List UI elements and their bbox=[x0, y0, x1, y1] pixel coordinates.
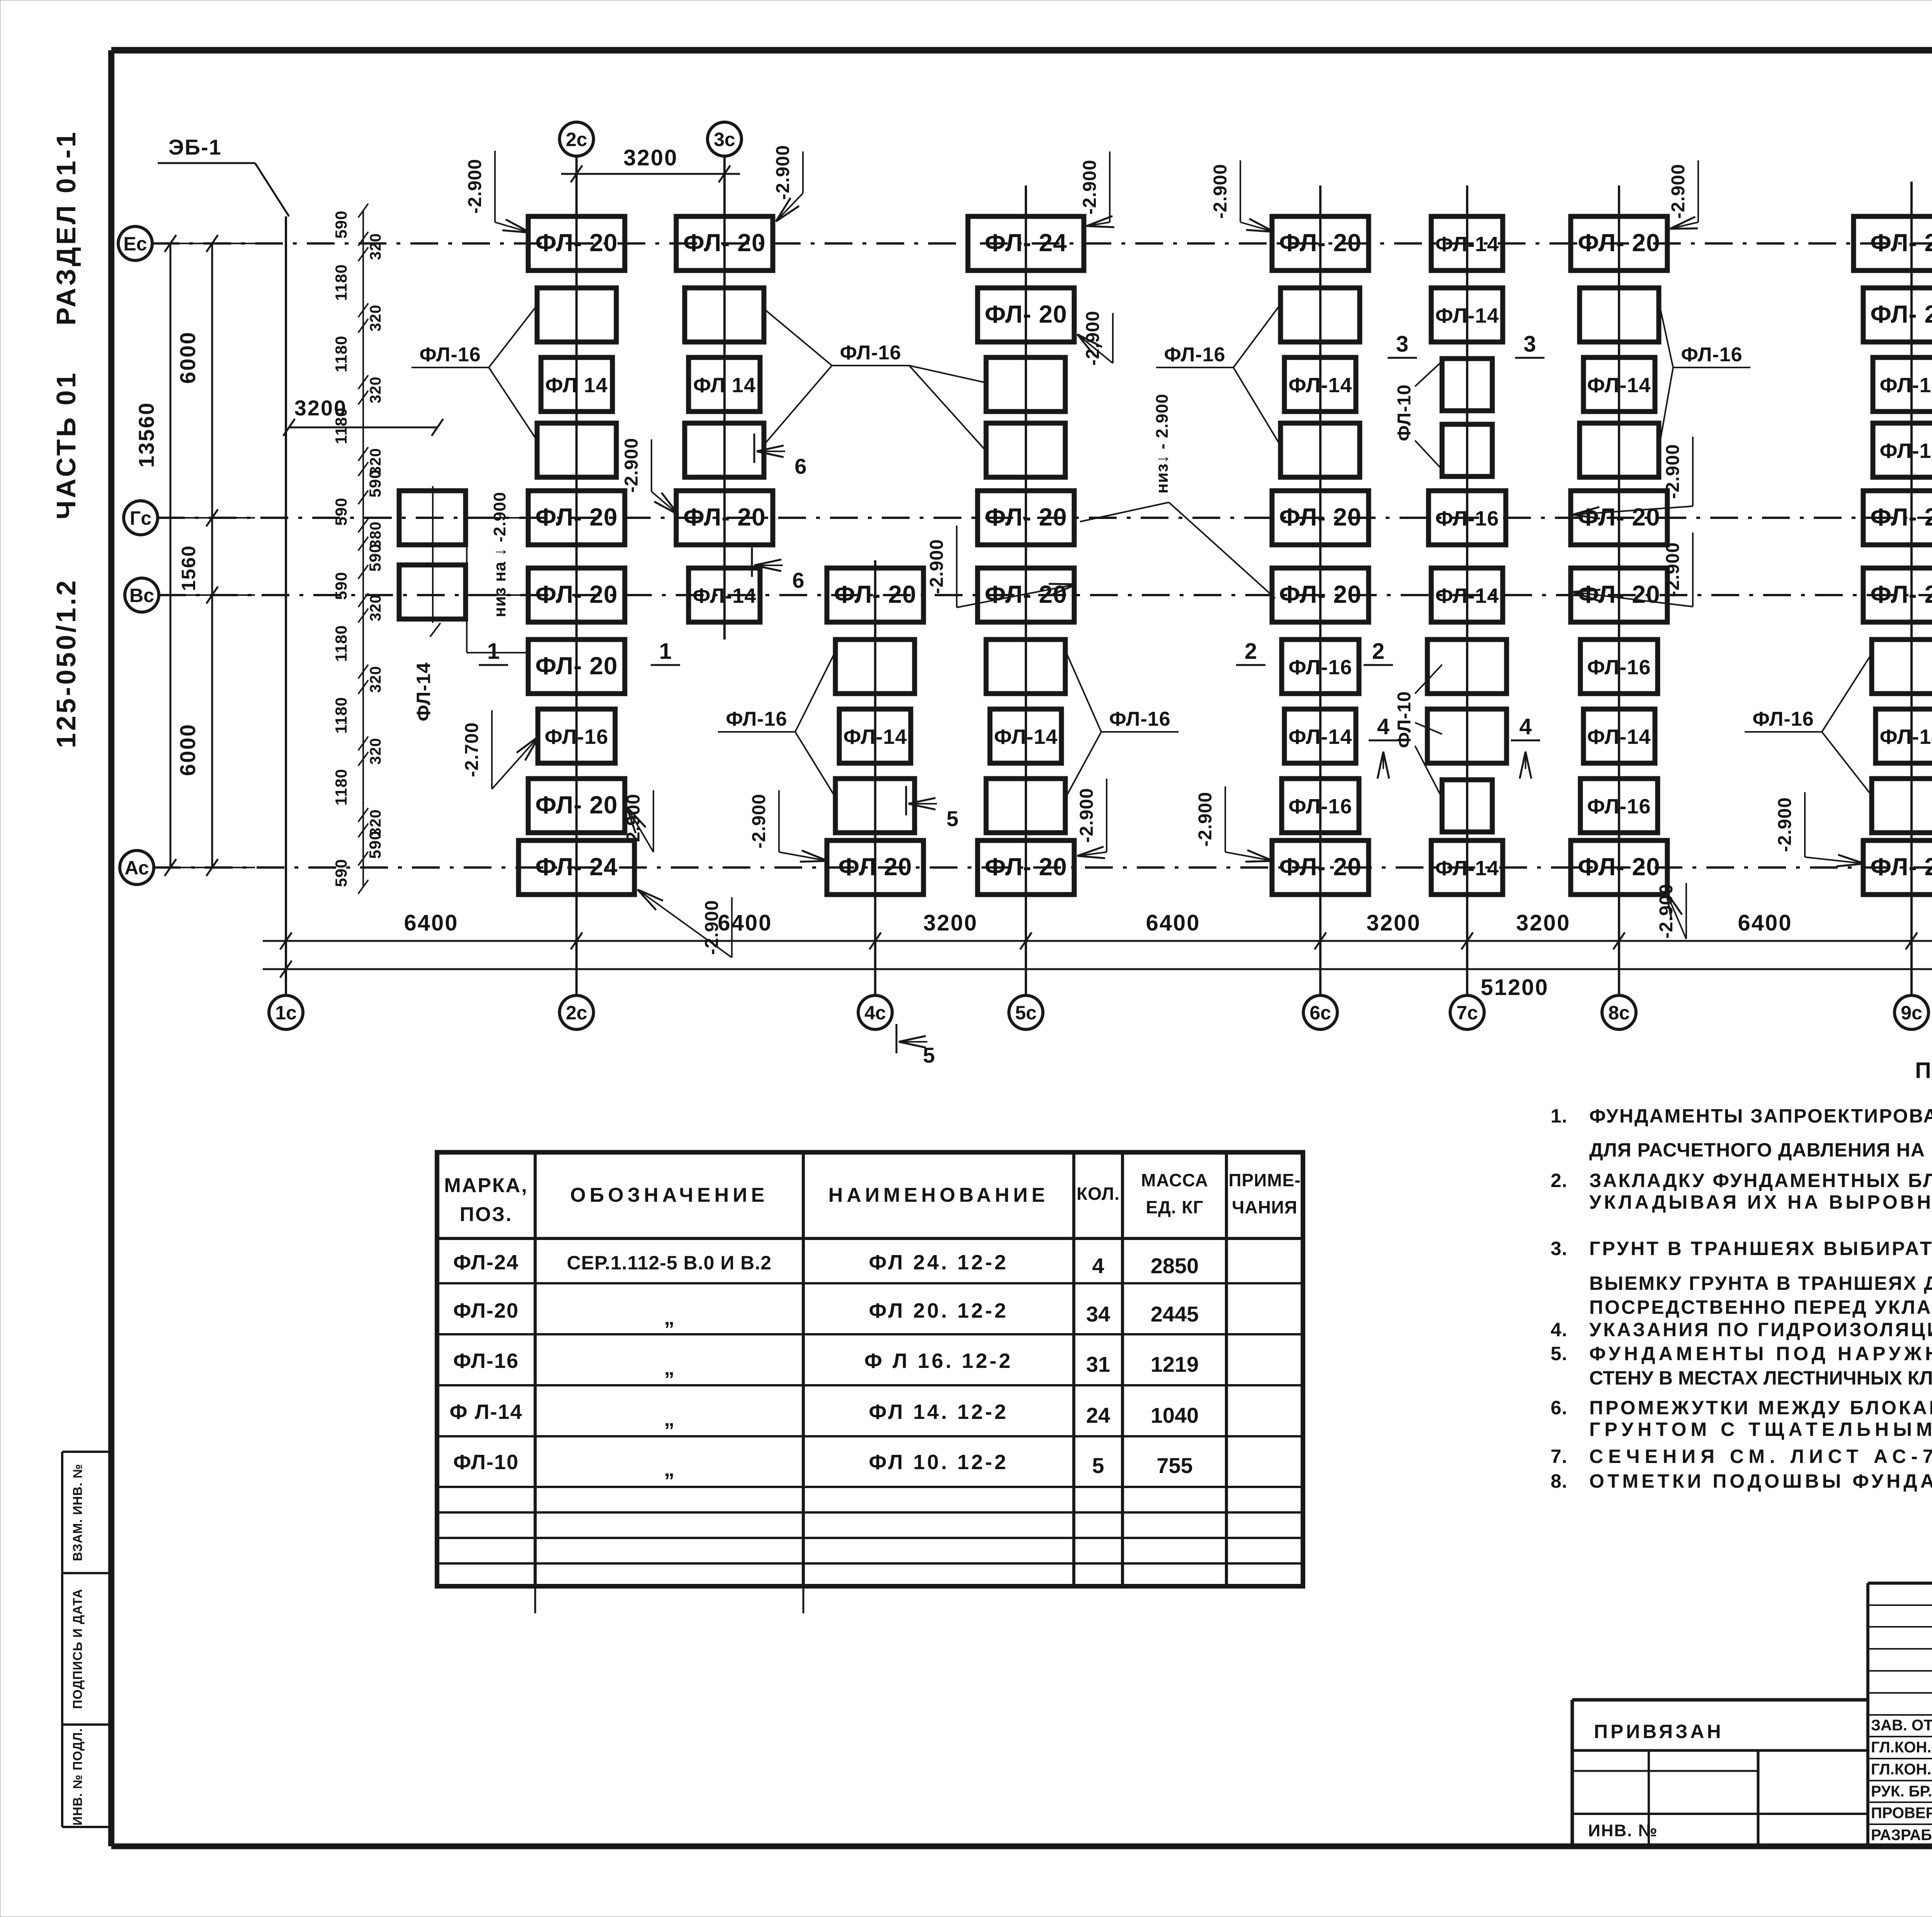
svg-text:4с: 4с bbox=[864, 1002, 886, 1024]
svg-text:ФЛ- 20: ФЛ- 20 bbox=[834, 580, 916, 608]
svg-text:2: 2 bbox=[1372, 639, 1384, 664]
svg-text:НАИМЕНОВАНИЕ: НАИМЕНОВАНИЕ bbox=[828, 1184, 1049, 1206]
svg-text:3200: 3200 bbox=[623, 145, 678, 170]
svg-text:Ас: Ас bbox=[124, 857, 149, 879]
svg-text:590: 590 bbox=[366, 830, 384, 859]
svg-text:3.: 3. bbox=[1551, 1238, 1568, 1259]
svg-text:„: „ bbox=[664, 1306, 675, 1329]
svg-text:3с: 3с bbox=[714, 129, 735, 150]
svg-text:6400: 6400 bbox=[404, 910, 458, 936]
svg-text:1180: 1180 bbox=[332, 407, 350, 444]
svg-text:2445: 2445 bbox=[1151, 1302, 1199, 1326]
svg-text:590: 590 bbox=[366, 469, 384, 497]
svg-text:„: „ bbox=[664, 1356, 675, 1379]
svg-text:-2.700: -2.700 bbox=[462, 722, 482, 777]
svg-text:24: 24 bbox=[1086, 1403, 1110, 1427]
svg-text:ДЛЯ РАСЧЕТНОГО ДАВЛЕНИЯ НА: ДЛЯ РАСЧЕТНОГО ДАВЛЕНИЯ НА ГРУНТ - 2,0 К… bbox=[1589, 1139, 1932, 1161]
svg-text:СЕЧЕНИЯ СМ. ЛИСТ АС-7: СЕЧЕНИЯ СМ. ЛИСТ АС-7 bbox=[1589, 1446, 1932, 1467]
svg-text:ФЛ-16: ФЛ-16 bbox=[726, 708, 787, 730]
svg-text:ФЛ-14: ФЛ-14 bbox=[1289, 725, 1352, 748]
svg-text:3: 3 bbox=[1524, 332, 1536, 357]
svg-text:5: 5 bbox=[1092, 1453, 1104, 1478]
svg-text:ОТМЕТКИ ПОДОШВЫ ФУНДАМЕНТОВ,: ОТМЕТКИ ПОДОШВЫ ФУНДАМЕНТОВ, НЕ ОГОВОРЕН… bbox=[1589, 1470, 1932, 1492]
svg-text:Гс: Гс bbox=[130, 507, 151, 529]
svg-text:УКАЗАНИЯ ПО ГИДРОИЗОЛЯЦИИ С: УКАЗАНИЯ ПО ГИДРОИЗОЛЯЦИИ СМ. ЛИСТ АС-2 … bbox=[1589, 1319, 1932, 1340]
svg-text:6000: 6000 bbox=[175, 331, 200, 384]
svg-text:ФЛ-16: ФЛ-16 bbox=[840, 342, 901, 364]
svg-text:320: 320 bbox=[367, 666, 384, 693]
svg-text:1: 1 bbox=[659, 639, 672, 664]
svg-text:ПОДПИСЬ И ДАТА: ПОДПИСЬ И ДАТА bbox=[70, 1589, 85, 1709]
svg-text:6с: 6с bbox=[1310, 1002, 1331, 1024]
svg-text:ФЛ-16: ФЛ-16 bbox=[419, 344, 481, 366]
svg-text:ЗАВ. ОТД.: ЗАВ. ОТД. bbox=[1871, 1717, 1932, 1734]
svg-text:ФЛ 14: ФЛ 14 bbox=[693, 374, 756, 397]
svg-text:ВЗАМ. ИНВ. №: ВЗАМ. ИНВ. № bbox=[70, 1464, 85, 1561]
svg-text:низ на ↓ -2.900: низ на ↓ -2.900 bbox=[490, 492, 509, 617]
svg-text:6.: 6. bbox=[1551, 1397, 1568, 1419]
svg-text:ГЛ.КОН.ОТ: ГЛ.КОН.ОТ bbox=[1871, 1739, 1932, 1756]
svg-text:ФЛ-16: ФЛ-16 bbox=[545, 725, 609, 748]
svg-text:ФЛ- 20: ФЛ- 20 bbox=[1279, 229, 1361, 257]
svg-text:ФЛ- 20: ФЛ- 20 bbox=[535, 229, 617, 257]
svg-text:ФЛ- 20: ФЛ- 20 bbox=[535, 580, 617, 608]
svg-text:ФЛ-14: ФЛ-14 bbox=[1587, 725, 1651, 748]
svg-text:ФЛ-20: ФЛ-20 bbox=[453, 1299, 519, 1322]
svg-text:-2.900: -2.900 bbox=[927, 539, 947, 594]
svg-text:„: „ bbox=[664, 1407, 675, 1431]
svg-text:320: 320 bbox=[367, 738, 384, 765]
svg-text:КОЛ.: КОЛ. bbox=[1077, 1184, 1120, 1204]
svg-text:ЧАНИЯ: ЧАНИЯ bbox=[1232, 1197, 1298, 1217]
svg-text:ФЛ-14: ФЛ-14 bbox=[1289, 374, 1352, 397]
svg-text:1180: 1180 bbox=[332, 335, 350, 372]
svg-text:ЗАКЛАДКУ ФУНДАМЕНТНЫХ БЛОКОВ: ЗАКЛАДКУ ФУНДАМЕНТНЫХ БЛОКОВ НАЧИНАТЬ С … bbox=[1589, 1170, 1932, 1191]
svg-text:1560: 1560 bbox=[178, 545, 199, 591]
svg-text:3: 3 bbox=[1396, 332, 1408, 357]
svg-text:ГРУНТОМ С ТЩАТЕЛЬНЫМ ТРАМБО: ГРУНТОМ С ТЩАТЕЛЬНЫМ ТРАМБОВАНИЕМ. bbox=[1589, 1419, 1932, 1440]
svg-text:2с: 2с bbox=[566, 129, 587, 150]
svg-text:-2.900: -2.900 bbox=[465, 159, 485, 214]
svg-text:-2.900: -2.900 bbox=[1775, 797, 1795, 852]
svg-text:ФЛ-14: ФЛ-14 bbox=[693, 584, 757, 607]
svg-text:755: 755 bbox=[1156, 1453, 1192, 1478]
svg-text:8с: 8с bbox=[1608, 1002, 1630, 1024]
svg-text:51200: 51200 bbox=[1481, 975, 1549, 1000]
svg-text:ФЛ- 20: ФЛ- 20 bbox=[1870, 300, 1932, 328]
svg-text:ФЛ-14: ФЛ-14 bbox=[1435, 304, 1499, 327]
svg-text:низ↓ - 2.900: низ↓ - 2.900 bbox=[1153, 394, 1172, 494]
svg-text:ФЛ- 20: ФЛ- 20 bbox=[683, 503, 765, 531]
svg-text:2с: 2с bbox=[566, 1002, 587, 1024]
svg-text:-2.900: -2.900 bbox=[1195, 792, 1216, 847]
svg-text:5с: 5с bbox=[1015, 1002, 1037, 1024]
svg-text:1180: 1180 bbox=[332, 625, 350, 662]
svg-text:8.: 8. bbox=[1551, 1470, 1568, 1492]
svg-text:ФЛ- 20: ФЛ- 20 bbox=[1578, 229, 1660, 257]
svg-text:6400: 6400 bbox=[1146, 910, 1200, 936]
svg-text:ФЛ-14: ФЛ-14 bbox=[413, 662, 434, 721]
svg-text:ФЛ-14: ФЛ-14 bbox=[1435, 584, 1499, 607]
svg-text:ФЛ-14: ФЛ-14 bbox=[1435, 857, 1499, 880]
svg-text:9с: 9с bbox=[1901, 1002, 1922, 1024]
svg-text:-2.900: -2.900 bbox=[621, 438, 642, 493]
svg-text:РУК. БР.: РУК. БР. bbox=[1871, 1783, 1932, 1800]
svg-text:ФЛ- 20: ФЛ- 20 bbox=[535, 652, 617, 680]
svg-text:590: 590 bbox=[332, 497, 350, 526]
svg-text:-2.900: -2.900 bbox=[1210, 164, 1231, 219]
svg-text:ФЛ-16: ФЛ-16 bbox=[1681, 344, 1742, 366]
svg-text:ФЛ-16: ФЛ-16 bbox=[1880, 439, 1932, 463]
svg-text:ФЛ-16: ФЛ-16 bbox=[1587, 795, 1651, 818]
svg-text:ФЛ 20: ФЛ 20 bbox=[838, 853, 912, 881]
svg-text:ФЛ-14: ФЛ-14 bbox=[994, 725, 1058, 748]
svg-text:ФЛ-16: ФЛ-16 bbox=[1587, 656, 1651, 679]
svg-text:ФЛ- 20: ФЛ- 20 bbox=[985, 300, 1067, 328]
svg-text:5: 5 bbox=[946, 806, 958, 831]
svg-text:РАЗРАБ.: РАЗРАБ. bbox=[1871, 1827, 1932, 1844]
svg-text:ФЛ-14: ФЛ-14 bbox=[1880, 725, 1932, 748]
svg-text:1219: 1219 bbox=[1151, 1352, 1199, 1376]
svg-text:ФЛ- 20: ФЛ- 20 bbox=[1870, 580, 1932, 608]
svg-text:ПРИВЯЗАН: ПРИВЯЗАН bbox=[1594, 1721, 1724, 1742]
svg-text:ФЛ-16: ФЛ-16 bbox=[1109, 708, 1170, 730]
svg-text:ФЛ 14. 12-2: ФЛ 14. 12-2 bbox=[869, 1400, 1008, 1424]
svg-text:ФЛ-14: ФЛ-14 bbox=[1435, 233, 1499, 256]
svg-text:5: 5 bbox=[923, 1043, 935, 1067]
svg-text:4: 4 bbox=[1519, 714, 1532, 739]
svg-text:590: 590 bbox=[332, 210, 350, 238]
svg-text:7с: 7с bbox=[1456, 1002, 1478, 1024]
svg-text:320: 320 bbox=[367, 304, 384, 332]
svg-text:ФЛ- 20: ФЛ- 20 bbox=[683, 229, 765, 257]
svg-text:ФЛ 20. 12-2: ФЛ 20. 12-2 bbox=[869, 1299, 1008, 1322]
svg-text:ФЛ 24. 12-2: ФЛ 24. 12-2 bbox=[869, 1251, 1008, 1274]
svg-text:1040: 1040 bbox=[1151, 1403, 1199, 1427]
svg-text:590: 590 bbox=[366, 543, 384, 572]
svg-text:2850: 2850 bbox=[1151, 1254, 1199, 1278]
svg-text:ФЛ-16: ФЛ-16 bbox=[1164, 344, 1225, 366]
svg-text:ЭБ-1: ЭБ-1 bbox=[168, 135, 222, 159]
svg-text:2: 2 bbox=[1245, 639, 1257, 664]
svg-text:ГЛ.КОН.ПР: ГЛ.КОН.ПР bbox=[1871, 1761, 1932, 1778]
svg-text:ФЛ-16: ФЛ-16 bbox=[453, 1349, 519, 1373]
svg-text:ФЛ- 20: ФЛ- 20 bbox=[1279, 580, 1361, 608]
svg-text:Ф Л-14: Ф Л-14 bbox=[449, 1400, 522, 1424]
svg-text:4: 4 bbox=[1092, 1254, 1104, 1278]
svg-text:125-050/1.2 ЧАСТЬ 01 РАЗДЕЛ: 125-050/1.2 ЧАСТЬ 01 РАЗДЕЛ 01-1 bbox=[51, 130, 81, 748]
svg-text:ПРОМЕЖУТКИ МЕЖДУ БЛОКАМИ ФУ: ПРОМЕЖУТКИ МЕЖДУ БЛОКАМИ ФУНДАМЕНТОВ ДОЛ… bbox=[1589, 1397, 1932, 1419]
svg-text:ПОЗ.: ПОЗ. bbox=[460, 1203, 513, 1226]
svg-text:МАССА: МАССА bbox=[1141, 1170, 1208, 1190]
svg-text:4: 4 bbox=[1377, 714, 1389, 739]
svg-text:ФЛ- 20: ФЛ- 20 bbox=[1870, 853, 1932, 881]
svg-text:34: 34 bbox=[1086, 1302, 1110, 1326]
svg-text:Ф Л 16. 12-2: Ф Л 16. 12-2 bbox=[864, 1349, 1013, 1373]
svg-text:Вс: Вс bbox=[129, 585, 154, 606]
svg-text:ФЛ- 20: ФЛ- 20 bbox=[1870, 503, 1932, 531]
svg-text:1: 1 bbox=[487, 639, 500, 664]
svg-text:ФЛ- 20: ФЛ- 20 bbox=[535, 791, 617, 819]
svg-text:СТЕНУ В МЕСТАХ ЛЕСТНИЧНЫХ: СТЕНУ В МЕСТАХ ЛЕСТНИЧНЫХ КЛЕТОК СМ. ЛИС… bbox=[1589, 1367, 1932, 1389]
svg-text:ФЛ 14: ФЛ 14 bbox=[545, 374, 608, 397]
svg-text:ФУНДАМЕНТЫ ЗАПРОЕКТИРОВАНЫ И: ФУНДАМЕНТЫ ЗАПРОЕКТИРОВАНЫ ИЗ СБОРНЫХ ЖЕ… bbox=[1589, 1105, 1932, 1127]
svg-text:ПОСРЕДСТВЕННО ПЕРЕД УКЛАДКОЙ: ПОСРЕДСТВЕННО ПЕРЕД УКЛАДКОЙ ФУНДАМЕНТНЫ… bbox=[1589, 1296, 1932, 1318]
svg-text:ФЛ-16: ФЛ-16 bbox=[1752, 708, 1814, 730]
svg-text:6400: 6400 bbox=[718, 910, 772, 936]
svg-text:4.: 4. bbox=[1551, 1319, 1568, 1340]
svg-text:ФЛ-10: ФЛ-10 bbox=[1394, 384, 1415, 441]
svg-text:ПРОВЕР.: ПРОВЕР. bbox=[1871, 1805, 1932, 1822]
svg-text:-2.900: -2.900 bbox=[1080, 160, 1100, 214]
svg-text:1180: 1180 bbox=[332, 264, 350, 301]
svg-text:-2.900: -2.900 bbox=[773, 145, 793, 200]
svg-text:ФЛ-24: ФЛ-24 bbox=[453, 1251, 519, 1274]
svg-text:ФЛ-10: ФЛ-10 bbox=[453, 1451, 519, 1474]
svg-text:1.: 1. bbox=[1551, 1105, 1568, 1127]
svg-text:ФЛ-14: ФЛ-14 bbox=[844, 725, 907, 748]
svg-text:13560: 13560 bbox=[134, 402, 158, 468]
svg-text:ФУНДАМЕНТЫ ПОД НАРУЖНЫЕ ПЛО: ФУНДАМЕНТЫ ПОД НАРУЖНЫЕ ПЛОЩАДКИ ПЕРЕД В… bbox=[1589, 1343, 1932, 1364]
svg-text:6400: 6400 bbox=[1738, 910, 1792, 936]
svg-text:590: 590 bbox=[332, 859, 350, 887]
svg-text:-2.900: -2.900 bbox=[1663, 444, 1683, 499]
svg-text:6: 6 bbox=[794, 454, 806, 478]
svg-text:МАРКА,: МАРКА, bbox=[444, 1174, 528, 1197]
svg-text:320: 320 bbox=[367, 233, 384, 260]
svg-text:ФЛ-14: ФЛ-14 bbox=[1587, 374, 1651, 397]
svg-text:ВЫЕМКУ ГРУНТА В ТРАНШЕЯХ ДО: ВЫЕМКУ ГРУНТА В ТРАНШЕЯХ ДО ПРОЕКТНОЙ ОТ… bbox=[1589, 1272, 1932, 1294]
svg-text:СЕР.1.112-5 В.0 И В.2: СЕР.1.112-5 В.0 И В.2 bbox=[567, 1252, 772, 1274]
svg-text:3200: 3200 bbox=[1366, 910, 1421, 936]
svg-text:-2.900: -2.900 bbox=[702, 900, 722, 955]
svg-text:2.: 2. bbox=[1551, 1170, 1568, 1191]
svg-text:-2.900: -2.900 bbox=[1663, 542, 1683, 597]
svg-text:ФЛ-16: ФЛ-16 bbox=[1289, 795, 1352, 818]
svg-text:ФЛ- 20: ФЛ- 20 bbox=[985, 503, 1067, 531]
svg-text:31: 31 bbox=[1086, 1352, 1110, 1376]
svg-text:3200: 3200 bbox=[923, 910, 978, 936]
svg-text:ОБОЗНАЧЕНИЕ: ОБОЗНАЧЕНИЕ bbox=[570, 1184, 769, 1206]
svg-text:-2.900: -2.900 bbox=[1077, 788, 1097, 843]
svg-text:ГРУНТ В ТРАНШЕЯХ ВЫБИРАТЬ Н: ГРУНТ В ТРАНШЕЯХ ВЫБИРАТЬ НЕ ДОХОДЯ ДО Д… bbox=[1589, 1237, 1932, 1259]
svg-text:ИНВ. №: ИНВ. № bbox=[1588, 1821, 1658, 1840]
svg-text:1с: 1с bbox=[275, 1002, 297, 1024]
svg-text:-2.900: -2.900 bbox=[1668, 164, 1689, 219]
svg-text:ФЛ-16: ФЛ-16 bbox=[1435, 507, 1499, 530]
svg-text:Ес: Ес bbox=[123, 233, 147, 255]
svg-text:ПРИМЕ-: ПРИМЕ- bbox=[1228, 1170, 1301, 1190]
svg-text:УКЛАДЫВАЯ ИХ НА ВЫРОВНЕННОЕ: УКЛАДЫВАЯ ИХ НА ВЫРОВНЕННОЕ ПЕСЧАНОЕ ОСН… bbox=[1589, 1191, 1932, 1213]
svg-text:ФЛ- 20: ФЛ- 20 bbox=[1279, 853, 1361, 881]
svg-text:-2.900: -2.900 bbox=[749, 794, 769, 849]
svg-text:ЕД. КГ: ЕД. КГ bbox=[1146, 1197, 1203, 1217]
svg-text:1180: 1180 bbox=[332, 769, 350, 805]
svg-text:590: 590 bbox=[332, 572, 350, 600]
svg-text:ФЛ- 20: ФЛ- 20 bbox=[535, 503, 617, 531]
svg-text:5.: 5. bbox=[1551, 1343, 1568, 1364]
svg-text:ФЛ- 24: ФЛ- 24 bbox=[1870, 229, 1932, 257]
svg-text:7.: 7. bbox=[1551, 1446, 1568, 1467]
svg-text:ФЛ- 20: ФЛ- 20 bbox=[1578, 853, 1660, 881]
svg-text:П р и м е ч а н и я .: П р и м е ч а н и я . bbox=[1915, 1058, 1932, 1083]
svg-text:320: 320 bbox=[367, 376, 384, 403]
svg-text:ФЛ- 24: ФЛ- 24 bbox=[985, 229, 1067, 257]
svg-text:ФЛ 10. 12-2: ФЛ 10. 12-2 bbox=[869, 1451, 1008, 1474]
svg-text:1180: 1180 bbox=[332, 697, 350, 733]
svg-text:3200: 3200 bbox=[1516, 910, 1570, 936]
svg-text:ФЛ-16: ФЛ-16 bbox=[1880, 374, 1932, 397]
svg-text:ФЛ-16: ФЛ-16 bbox=[1289, 656, 1352, 679]
svg-text:ФЛ- 20: ФЛ- 20 bbox=[1279, 503, 1361, 531]
svg-text:320: 320 bbox=[367, 594, 384, 621]
svg-text:ИНВ. № ПОДЛ.: ИНВ. № ПОДЛ. bbox=[70, 1728, 85, 1825]
svg-text:6000: 6000 bbox=[175, 723, 200, 776]
svg-text:„: „ bbox=[664, 1458, 675, 1481]
svg-text:ФЛ- 24: ФЛ- 24 bbox=[535, 853, 617, 881]
svg-text:6: 6 bbox=[792, 568, 804, 592]
svg-text:ФЛ- 20: ФЛ- 20 bbox=[985, 853, 1067, 881]
